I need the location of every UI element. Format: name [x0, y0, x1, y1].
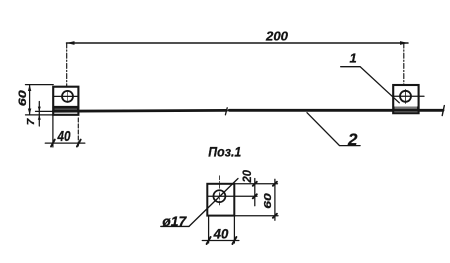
- rod segment right: [229, 109, 443, 112]
- dim 20 slash tick top: [253, 182, 257, 186]
- dim 7 vertical line: [38, 102, 40, 127]
- svg-text:2: 2: [347, 130, 358, 149]
- svg-text:60: 60: [262, 193, 274, 209]
- svg-text:20: 20: [240, 170, 254, 184]
- right plate hole vertical centerline: [405, 90, 407, 104]
- dim 60 arrow top: [28, 85, 31, 91]
- dim 40 detail slash right: [232, 237, 236, 244]
- detail hole horizontal centerline: [207, 195, 257, 197]
- svg-text:Поз.1: Поз.1: [208, 143, 241, 159]
- svg-text:40: 40: [213, 227, 229, 242]
- svg-text:7: 7: [26, 118, 37, 125]
- left plate hole vertical centerline: [67, 91, 69, 103]
- right plate hole horizontal centerline: [393, 95, 424, 97]
- dim 40 left extension: [52, 116, 54, 147]
- weld hatch left plate: [55, 108, 77, 110]
- leader line of label 1: [341, 67, 400, 103]
- dim 60 detail bottom extension: [234, 215, 278, 217]
- dim 60 vertical line: [29, 85, 31, 115]
- weld hatch right plate: [395, 107, 417, 110]
- left plate P1: [53, 87, 78, 115]
- dim 60 detail vertical line: [274, 179, 276, 220]
- detail hole vertical centerline (dash-dot): [218, 176, 220, 206]
- leader line of label 2: [307, 113, 360, 146]
- dim 60 extension bottom: [26, 114, 54, 116]
- dim 7 extension line: [36, 110, 54, 112]
- svg-text:40: 40: [57, 129, 71, 145]
- extension centerline left (dash-dot): [66, 43, 68, 87]
- detail plate Поз.1: [207, 184, 234, 216]
- svg-text:ø17: ø17: [162, 213, 187, 229]
- weld bead bar left plate: [54, 106, 78, 109]
- dim 40 detail slash left: [207, 237, 211, 244]
- dim 20 slash tick bottom: [253, 194, 257, 198]
- dim 40 right extension (dashed): [77, 118, 79, 147]
- dim 20 extension (plate top prolonged): [234, 183, 277, 185]
- dim 7 arrow upper: [38, 107, 41, 112]
- dim 40 detail left extension: [208, 216, 210, 243]
- dim 40 detail right extension: [233, 216, 235, 243]
- rod segment left (item 2): [53, 109, 226, 113]
- dim 40 slash arrow right: [77, 140, 81, 147]
- phi17 leader diagonal: [189, 179, 238, 227]
- rod break tick: [225, 108, 227, 115]
- svg-text:60: 60: [17, 89, 29, 106]
- dim 40 line: [45, 142, 85, 144]
- arrow right of dim 200: [400, 41, 408, 45]
- dimension line 200: [67, 42, 409, 44]
- left plate hole horizontal centerline: [53, 95, 78, 97]
- dim 40 slash arrow left: [51, 140, 55, 147]
- dim 60 arrow bottom: [28, 109, 31, 115]
- dim 20 vertical line: [254, 179, 256, 206]
- arrow left of dim 200: [67, 41, 75, 45]
- phi17 underline: [161, 225, 189, 227]
- right plate P2: [393, 85, 418, 113]
- rod end cut slash: [442, 106, 444, 116]
- dim 40 detail line: [202, 240, 239, 242]
- svg-text:200: 200: [265, 29, 289, 44]
- left plate hole circle: [62, 91, 73, 102]
- dim 60 detail slash tick top: [273, 182, 277, 186]
- dim 60 detail slash tick bottom: [273, 214, 277, 218]
- dim 7 arrow lower: [38, 115, 41, 120]
- extension centerline right (dash-dot): [403, 43, 405, 85]
- dim 60 extension top: [26, 84, 54, 86]
- svg-text:1: 1: [350, 50, 357, 65]
- right plate hole circle: [400, 91, 411, 102]
- detail hole circle: [213, 190, 225, 202]
